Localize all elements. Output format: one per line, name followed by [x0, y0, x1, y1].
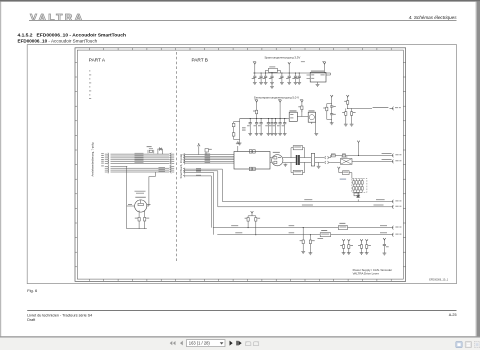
wire signal line 4 — [217, 232, 393, 234]
node junction J1 — [303, 227, 304, 240]
capacitor C11 with ground — [258, 118, 263, 136]
toolbar next page button — [230, 341, 233, 346]
power flag part B — [198, 143, 201, 155]
resistor R9 above choke — [291, 146, 305, 158]
frame ruler tick marks — [75, 48, 406, 282]
window left edge — [0, 2, 1, 337]
wires part B lower bundle with corners — [188, 168, 222, 235]
wire potentiometer right to bundle — [149, 172, 156, 206]
capacitor C7 with ground — [292, 72, 297, 84]
window right scrollbar strip — [476, 2, 480, 337]
pin signal 4 out — [392, 233, 401, 237]
connector X2 part B pins — [183, 153, 188, 177]
toolbar last page button — [236, 341, 241, 346]
resistor R5 on ECU top — [249, 150, 252, 153]
pin CAN H out — [392, 154, 401, 158]
label Crane Speed Adjustment — [135, 190, 146, 193]
schematic frame inner border — [77, 50, 403, 279]
capacitor C1 with ground — [252, 72, 257, 84]
net label bottom mid — [318, 237, 324, 240]
toolbar page combo box — [187, 340, 226, 347]
toolbar previous page button — [180, 341, 183, 346]
resistor R18 with ground — [300, 240, 306, 253]
capacitor pair CAN filter 1 — [340, 239, 353, 254]
statusbar layout icon 2 — [465, 342, 471, 348]
part A note list — [89, 71, 91, 99]
resistor R2 — [298, 106, 303, 112]
svg-text:4. Schémas électriques: 4. Schémas électriques — [409, 15, 457, 20]
capacitor C15 with ground — [277, 118, 282, 136]
Valtra logo — [30, 13, 84, 24]
toolbar first page button — [170, 341, 176, 345]
common mode choke T1 — [287, 155, 311, 165]
net label sensor supply out — [373, 106, 389, 109]
svg-text:EFD00006_10 - Accoudoir SmartT: EFD00006_10 - Accoudoir SmartTouch — [18, 38, 98, 43]
wire signal line 1 — [222, 199, 393, 201]
power flag termination — [338, 167, 341, 173]
resistor R11 inline CAN H — [331, 154, 335, 157]
diode D1 — [158, 148, 163, 155]
op-amp U1 LDO regulator — [307, 71, 331, 87]
net label 3V3 flags — [253, 60, 256, 63]
svg-text:Fig. 6: Fig. 6 — [27, 288, 38, 293]
resistor R3 — [135, 211, 140, 229]
sheet description text — [353, 268, 393, 276]
statusbar layout icon 3 — [474, 342, 480, 348]
power flag bottom divider — [248, 211, 256, 216]
capacitor C3 with ground — [263, 72, 268, 84]
capacitor C8 with ground — [296, 72, 301, 84]
pin signal 2 out — [392, 205, 401, 209]
wire bundle part B to ECU — [188, 154, 234, 164]
statusbar layout icon 1 — [456, 342, 462, 348]
resistor R6 on ECU top — [253, 150, 256, 153]
wire CAN H to edge — [331, 155, 394, 157]
footer left text — [27, 313, 92, 322]
svg-text:VALTRA: VALTRA — [30, 13, 84, 24]
resistor R17 inline signal 4 — [320, 230, 330, 237]
svg-text:163 (1 / 28): 163 (1 / 28) — [189, 341, 211, 346]
wire signal line 3 — [213, 225, 394, 227]
connector X3 CAN pins — [325, 156, 331, 164]
pin signal 1 out — [392, 200, 401, 204]
resistor R16 inline signal 3 — [338, 223, 347, 230]
svg-text:PART A: PART A — [89, 57, 106, 62]
power flag VCC3V3 mid — [288, 62, 291, 73]
power flag VCC3V3 right — [323, 62, 326, 73]
connector X1 part A pins — [101, 153, 108, 168]
capacitor C13 with ground — [269, 118, 274, 136]
label termination network — [340, 179, 346, 180]
svg-text:VALTRA Drive Lever: VALTRA Drive Lever — [353, 271, 379, 275]
transistor Q1 regulator — [297, 110, 318, 136]
svg-text:EFD00006_10_1: EFD00006_10_1 — [429, 279, 449, 282]
svg-text:SmartTouch, 10-polig: SmartTouch, 10-polig — [179, 153, 183, 178]
svg-text:PART B: PART B — [192, 57, 208, 62]
pin signal 3 out — [392, 226, 401, 230]
resistor R7 on ECU bottom — [249, 167, 252, 170]
part separator dashed line — [176, 52, 178, 261]
capacitor C9 with ground — [247, 118, 252, 136]
capacitor C6 with ground — [286, 72, 291, 84]
wire 5V bus — [240, 118, 288, 120]
svg-text:Livret du technicien - Tracteu: Livret du technicien - Tracteurs série S… — [27, 313, 92, 317]
resistor R19 with ground — [309, 240, 315, 255]
resistor R1 — [253, 110, 258, 118]
toolbar background — [0, 338, 480, 350]
capacitor pair CAN filter 2 — [358, 239, 371, 254]
pin CAN L out — [392, 160, 401, 164]
svg-text:Spannungsversorgung 3,3V: Spannungsversorgung 3,3V — [265, 56, 301, 60]
sensor output divider cluster — [342, 95, 372, 126]
resistor R14 — [245, 216, 250, 228]
ground CAN transceiver — [284, 164, 288, 167]
ECU main block U3 — [234, 152, 270, 170]
capacitor C10 with ground — [254, 118, 259, 136]
net labels CAN right — [382, 152, 392, 155]
RC filter cluster K1 — [323, 95, 336, 125]
lower wires part A — [105, 167, 170, 174]
power flag 5V a — [255, 100, 258, 110]
resistor R4 — [144, 211, 150, 229]
wire bundle part A rows — [111, 154, 170, 166]
header rule — [29, 20, 457, 22]
pin sensor supply out — [390, 107, 401, 111]
figure bounding box — [27, 45, 456, 284]
wire CAN L to edge — [331, 161, 394, 162]
resistor R13 termination — [339, 171, 352, 179]
capacitor C4 with ground — [269, 72, 274, 84]
capacitor C5 with ground — [279, 72, 284, 84]
power flag VCC3V3 left — [254, 62, 257, 73]
ground of L1 branch — [270, 84, 274, 88]
capacitor C16 with ground — [282, 118, 287, 136]
power flag 5V b — [279, 100, 282, 118]
wire 3.3V bus — [253, 72, 330, 74]
footer rule — [27, 310, 456, 312]
wire name labels part A — [135, 153, 144, 163]
resistor R12 inline CAN H — [342, 154, 345, 157]
wire signal line 2 — [218, 205, 394, 207]
svg-text:Armlehnenbedienung, 7-polig: Armlehnenbedienung, 7-polig — [91, 142, 95, 176]
capacitor C2 with ground — [258, 72, 263, 84]
ESD protection U5 — [311, 153, 324, 168]
svg-text:Sensorspannungsversorgung 5,0: Sensorspannungsversorgung 5,0 V — [254, 96, 299, 100]
capacitor C14 with ground — [273, 118, 278, 136]
ground RN1 — [356, 196, 360, 198]
diode D2 — [205, 149, 212, 155]
power flag CAN pullup — [357, 141, 360, 156]
wire potentiometer left rail — [127, 166, 147, 228]
inductor L1 — [266, 67, 281, 74]
capacitor C17 cluster left of 5V bus — [232, 119, 245, 145]
resistor R10 below choke — [291, 162, 305, 174]
ground above ECU — [236, 142, 240, 152]
potentiometer RV1 — [127, 197, 151, 212]
window top edge — [0, 0, 480, 2]
capacitor C12 with ground — [265, 118, 270, 136]
node junction J2 — [310, 234, 311, 240]
op-amp U2 reference — [287, 110, 297, 121]
filter F1 on CAN L — [340, 157, 352, 165]
net label 5V flags — [255, 98, 258, 101]
section title line 2 — [18, 38, 98, 43]
wire 3.3V output stub — [330, 73, 332, 75]
toolbar separator — [0, 336, 480, 337]
capacitor C21 to ground on line 1 — [354, 193, 360, 202]
resistor R15 — [255, 216, 260, 235]
resistor R8 on ECU bottom — [253, 167, 256, 170]
crystal Y1 filter — [147, 146, 154, 153]
power flag 5V c — [301, 100, 304, 106]
capacitor C20 with ground — [383, 238, 389, 255]
svg-text:A-25: A-25 — [449, 313, 457, 317]
toolbar rotate right button disabled — [253, 341, 259, 345]
svg-text:Draft: Draft — [27, 318, 35, 322]
schematic frame outer border — [75, 48, 406, 282]
resistor array RN1 — [352, 178, 367, 195]
CAN transceiver U4 — [270, 152, 287, 166]
toolbar rotate left button disabled — [245, 341, 251, 345]
connector X1 part A right half pins — [170, 153, 175, 174]
